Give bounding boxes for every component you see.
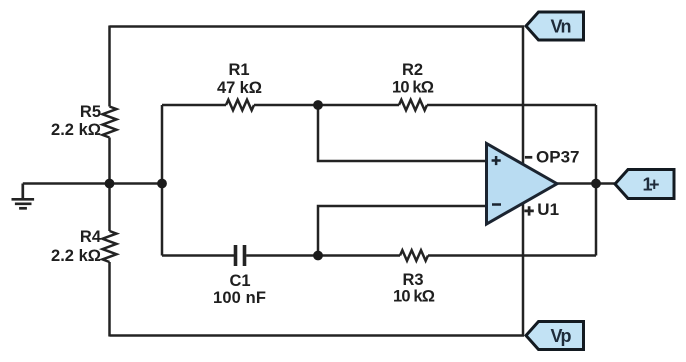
wire: bottom row middle segment	[246, 254, 400, 257]
svg-text:Vn: Vn	[551, 16, 572, 36]
wire: left bus lower segment	[108, 262, 111, 337]
svg-text:10 kΩ: 10 kΩ	[392, 79, 434, 97]
resistor R2	[399, 100, 427, 111]
wire: top row right segment to feedback bus	[427, 104, 596, 107]
wire: ground branch	[23, 182, 162, 185]
pin marker: positive supply +	[524, 206, 533, 215]
svg-text:R4: R4	[80, 228, 102, 246]
svg-text:2.2 kΩ: 2.2 kΩ	[51, 121, 101, 139]
wire: center stub vertical	[161, 105, 164, 256]
svg-text:R5: R5	[80, 103, 101, 121]
wire: left bus upper segment	[108, 26, 111, 107]
wire: top row middle segment	[254, 104, 399, 107]
wire: supply line Vn/Vp vertical	[522, 27, 525, 336]
wire: feedback bus vertical	[595, 105, 598, 256]
pin marker: noninverting + inside op-amp	[492, 156, 501, 165]
node: C1-R3 junction	[313, 251, 323, 261]
ground	[12, 184, 35, 209]
wire: bottom row left segment to C1	[162, 254, 234, 257]
op-amp U1	[487, 144, 558, 225]
wire: noninverting input branch	[318, 105, 487, 161]
resistor R3	[400, 250, 428, 261]
node: output junction	[591, 179, 601, 189]
terminal tag Vp	[526, 322, 584, 350]
pin marker: negative supply -	[525, 156, 532, 159]
svg-text:OP37: OP37	[536, 147, 580, 166]
wire: bottom rail from left bus to Vp tag	[110, 334, 525, 337]
wire: top rail from left bus to Vn tag	[110, 25, 525, 28]
wire: left bus middle segment	[108, 138, 111, 232]
svg-text:U1: U1	[537, 200, 559, 219]
svg-text:R1: R1	[228, 61, 249, 79]
wire: top row left segment	[162, 104, 226, 107]
wire: bottom row right segment to feedback bus	[428, 254, 596, 257]
resistor R1	[226, 100, 254, 111]
svg-text:47 kΩ: 47 kΩ	[217, 79, 262, 97]
node: ground / left bus junction	[105, 179, 115, 189]
wire: inverting input branch	[318, 206, 487, 256]
svg-text:R3: R3	[402, 271, 423, 289]
capacitor C1	[236, 245, 245, 266]
svg-text:10 kΩ: 10 kΩ	[393, 288, 435, 306]
wire: output to 1+ tag	[556, 182, 616, 185]
node: ground / center stub junction	[157, 179, 167, 189]
resistor R5	[103, 107, 117, 138]
terminal tag 1+	[615, 170, 674, 199]
svg-text:Vp: Vp	[551, 326, 572, 346]
node: R1-R2 junction	[313, 100, 323, 110]
svg-text:R2: R2	[402, 61, 423, 79]
terminal tag Vn	[526, 12, 584, 40]
svg-text:100 nF: 100 nF	[213, 289, 266, 307]
pin marker: inverting - inside op-amp	[492, 203, 501, 206]
svg-text:C1: C1	[229, 272, 250, 290]
resistor R4	[103, 231, 117, 262]
svg-text:1+: 1+	[643, 174, 660, 194]
svg-text:2.2 kΩ: 2.2 kΩ	[51, 247, 101, 265]
